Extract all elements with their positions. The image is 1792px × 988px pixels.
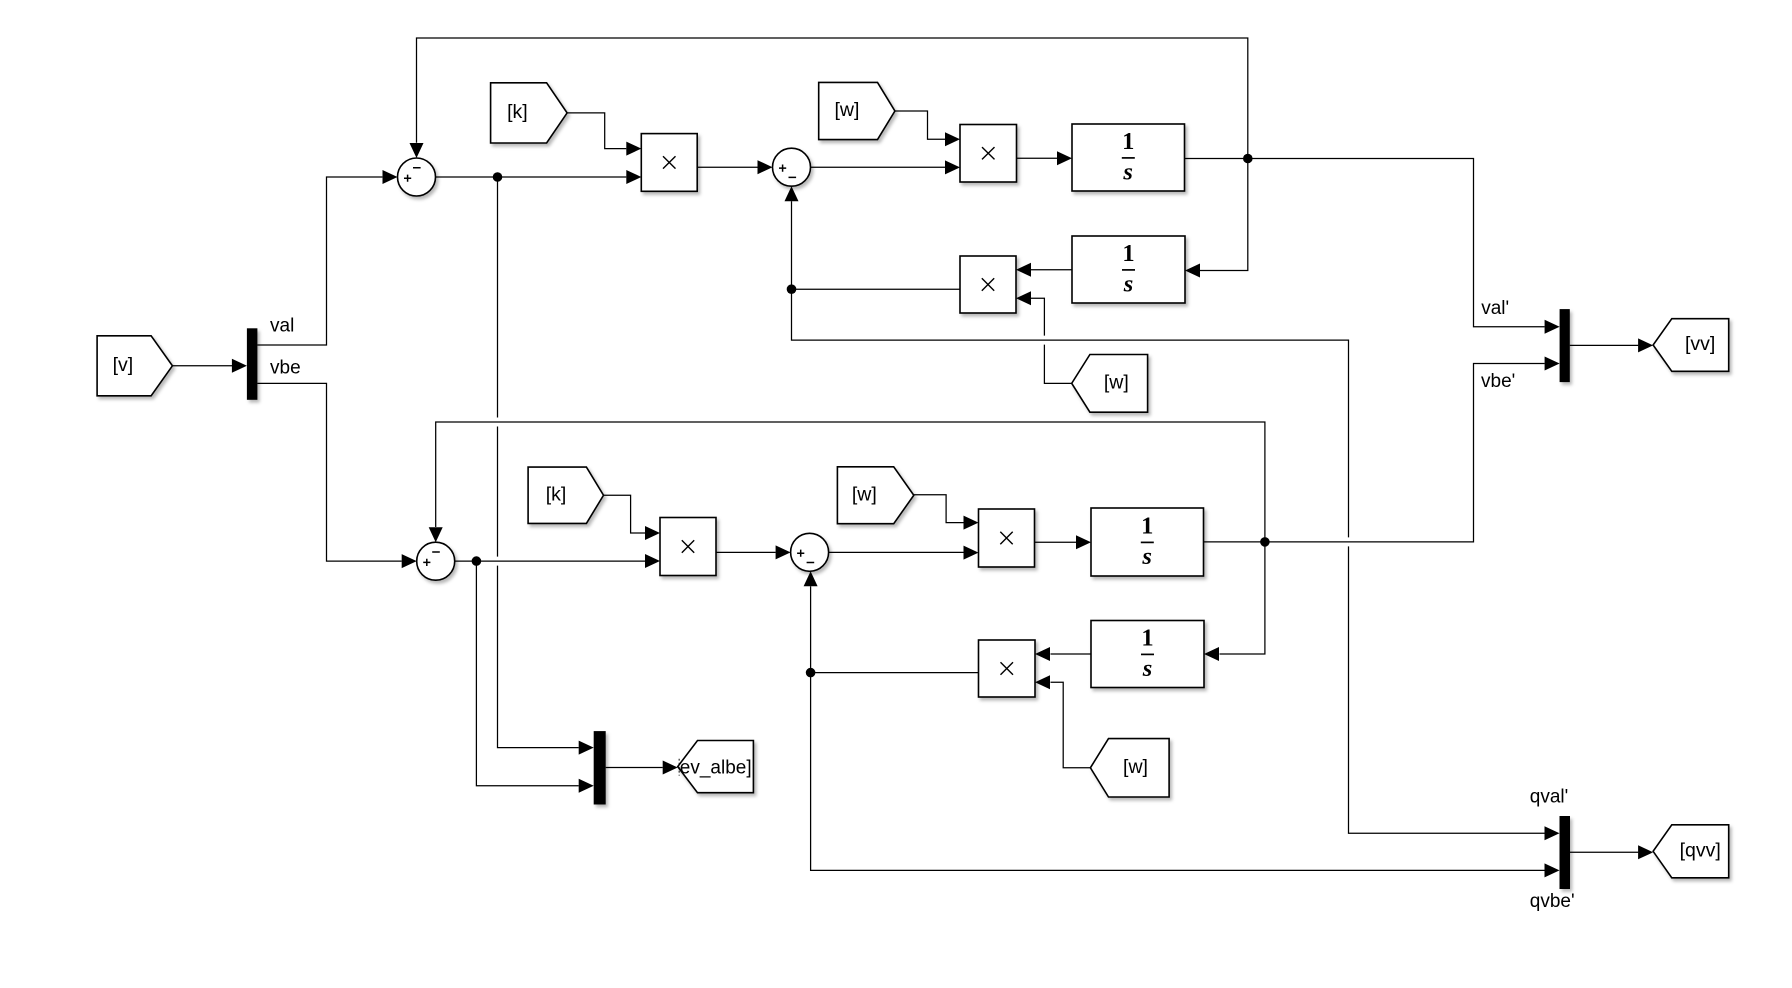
wire feedback to S3 north <box>436 422 1265 542</box>
wire S3 node down to mux M2 in2 <box>476 561 578 786</box>
svg-text:qvbe': qvbe' <box>1530 891 1575 912</box>
wire S3 out to P4 in2 <box>455 560 645 562</box>
integrator 1/s I2 (feedback, flipped) <box>1072 236 1185 303</box>
wire [w] lower flipped to P6 in2 <box>1051 682 1091 767</box>
wire S1 node down to mux M2 in1 (gaps at crossings) <box>497 177 499 418</box>
wire [k] lower to P4 in1 <box>604 495 646 533</box>
wire [w] flipped to P3 in2 (gap at crossing) <box>1044 345 1071 384</box>
wire node down and right to mux M3 in2 (qvbe') <box>811 673 1545 871</box>
svg-text:[vv]: [vv] <box>1685 333 1715 355</box>
sum block S1 (+ west, - north) <box>398 158 436 196</box>
svg-text:val: val <box>270 315 294 336</box>
svg-text:[k]: [k] <box>507 101 528 123</box>
From tag [w] (upper) <box>819 82 895 139</box>
wire P3 out to node <box>792 288 961 290</box>
wire node up to S2 south <box>791 201 793 289</box>
integrator 1/s I1 <box>1072 124 1185 191</box>
svg-text:[w]: [w] <box>1104 372 1129 394</box>
node on I3 output <box>1260 537 1270 547</box>
wire S2 out to P2 in2 <box>811 166 946 168</box>
wire P2 out to I1 in <box>1017 157 1058 159</box>
From tag [v] <box>97 336 172 396</box>
wire demux out2 (vbe) to S3 west <box>257 383 401 561</box>
wire feedback top to S1 north <box>417 38 1248 159</box>
From tag [w] (lower) <box>837 467 913 524</box>
wire mux M3 out to [qvv] <box>1570 851 1638 853</box>
wire mux M1 out to [vv] <box>1570 344 1639 346</box>
wire S1 out to P1 in2 <box>436 176 627 178</box>
svg-text:vbe': vbe' <box>1481 371 1515 392</box>
sum block S2 (+ west, - south) <box>773 148 811 186</box>
mux M2 (ev_albe) <box>594 731 606 804</box>
svg-text:1: 1 <box>1141 513 1153 540</box>
wire S4 out to P5 in2 <box>829 551 964 553</box>
svg-text:ev_albe]: ev_albe] <box>680 758 752 779</box>
sum block S4 (+ west, - south) <box>791 533 829 571</box>
svg-text:1: 1 <box>1141 625 1153 652</box>
node on P6 output <box>806 668 816 678</box>
product block P3 (flipped) <box>960 256 1016 313</box>
wire P1 out to S2 west <box>697 166 757 168</box>
wire I1 out to mux M1 in1 (val') <box>1185 159 1545 327</box>
node on P3 output <box>787 284 797 294</box>
svg-text:s: s <box>1123 270 1134 297</box>
svg-text:[w]: [w] <box>1123 756 1148 778</box>
integrator 1/s I4 (feedback, flipped) <box>1091 621 1204 688</box>
sum block S3 (+ west, - north) <box>417 542 455 580</box>
From tag [w] (lower feedback, flipped) <box>1090 739 1169 797</box>
From tag [k] (upper) <box>491 83 567 143</box>
svg-text:[v]: [v] <box>113 354 134 376</box>
wire P4 out to S4 west <box>716 551 776 553</box>
svg-text:s: s <box>1122 158 1133 185</box>
From tag [w] (upper feedback, flipped) <box>1072 355 1148 413</box>
product block P5 <box>979 509 1035 567</box>
product block P1 <box>641 134 697 192</box>
mux M3 (qval'/qvbe') <box>1560 816 1571 889</box>
svg-text:1: 1 <box>1122 128 1134 155</box>
mux M1 (val'/vbe') <box>1560 309 1570 382</box>
svg-text:[qvv]: [qvv] <box>1680 839 1721 861</box>
node on I1 output <box>1243 154 1253 164</box>
Goto tag [vv] <box>1653 319 1729 372</box>
wire I2 out to P3 in1 <box>1031 269 1072 271</box>
product block P6 (flipped) <box>979 640 1036 697</box>
wire I3 out to mux M1 in2 (vbe') <box>1204 364 1545 542</box>
product block P4 <box>660 518 716 576</box>
demux (val/vbe) <box>247 328 258 400</box>
wire node up to S4 south <box>810 586 812 672</box>
wire P5 out to I3 in <box>1035 541 1077 543</box>
svg-text:[k]: [k] <box>546 483 567 505</box>
wire P6 out to node <box>811 672 979 674</box>
svg-text:s: s <box>1141 543 1152 570</box>
svg-text:s: s <box>1142 655 1153 682</box>
wire [v] to demux <box>172 365 232 367</box>
wire [w] lower to P5 in1 <box>914 495 964 523</box>
Goto tag [ev_albe] (text clipped) <box>678 741 754 793</box>
wire [w] upper to P2 in1 <box>895 111 945 139</box>
svg-text:1: 1 <box>1122 240 1134 267</box>
svg-text:vbe: vbe <box>270 357 301 378</box>
wire I4 out to P6 in1 <box>1051 653 1092 655</box>
From tag [k] (lower) <box>528 467 603 523</box>
svg-text:qval': qval' <box>1530 787 1568 808</box>
wire mux M2 out to [ev_albe] <box>606 767 663 769</box>
wire [k] upper to P1 in1 <box>567 113 626 149</box>
node on S3 output <box>472 556 482 566</box>
wire demux out1 (val) to S1 west <box>257 177 382 345</box>
integrator 1/s I3 <box>1091 508 1204 576</box>
svg-text:val': val' <box>1481 298 1509 319</box>
node on S1 output <box>493 172 503 182</box>
wire node down and right to mux M3 in1 (qval', gap at crossing) <box>792 289 1349 537</box>
Goto tag [qvv] <box>1653 825 1729 878</box>
svg-text:[w]: [w] <box>852 483 877 505</box>
product block P2 <box>960 125 1017 183</box>
svg-text:[w]: [w] <box>834 99 859 121</box>
wire I3 node down to I4 in <box>1220 542 1265 654</box>
wire I1 node down to I2 in <box>1200 159 1248 271</box>
